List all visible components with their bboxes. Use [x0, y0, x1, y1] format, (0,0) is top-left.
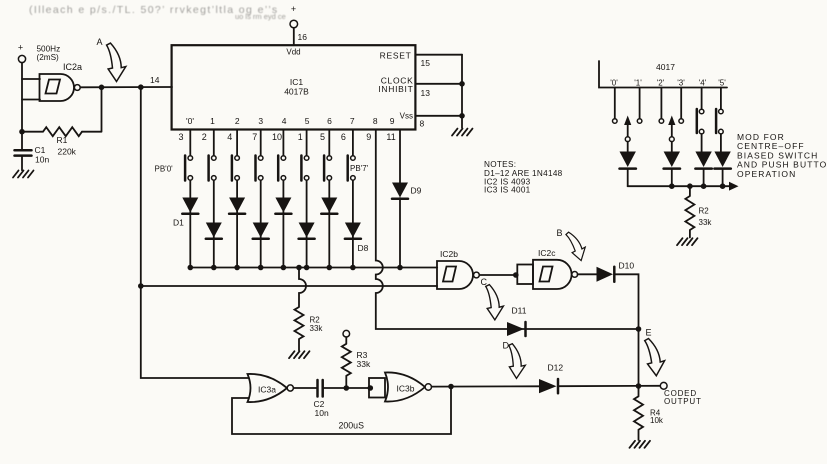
- mod switch '5': [716, 88, 723, 152]
- svg-text:OUTPUT: OUTPUT: [664, 397, 702, 406]
- node D arrow: [503, 341, 528, 380]
- svg-text:5: 5: [320, 132, 325, 142]
- wire IC2a inputs: [22, 79, 40, 100]
- svg-text:4: 4: [282, 116, 287, 126]
- svg-text:'4': '4': [699, 79, 707, 88]
- diode mod 4: [714, 152, 730, 187]
- svg-text:(2mS): (2mS): [37, 53, 60, 62]
- MOD note text: [737, 132, 827, 179]
- mod contact '3': [679, 88, 684, 124]
- svg-text:10: 10: [272, 132, 282, 142]
- diode mod 2: [664, 152, 680, 187]
- ground R2 mod: [677, 238, 698, 245]
- svg-text:1: 1: [298, 132, 303, 142]
- svg-text:4017B: 4017B: [284, 87, 309, 97]
- resistor R4: [634, 386, 664, 440]
- svg-text:E: E: [646, 328, 652, 338]
- pin number labels row: [178, 132, 395, 142]
- node feedback junction: [99, 85, 105, 91]
- diode D5: [275, 198, 291, 214]
- svg-text:8: 8: [373, 116, 378, 126]
- mod switch '4': [697, 88, 704, 152]
- svg-text:IC2a: IC2a: [63, 62, 82, 72]
- node B arrow: [557, 228, 588, 263]
- svg-text:33k: 33k: [699, 218, 713, 227]
- svg-text:7: 7: [252, 132, 257, 142]
- wire rail A down: [141, 87, 249, 378]
- svg-text:PB'0': PB'0': [155, 165, 174, 174]
- pushbutton PB'0' column pin3: [155, 130, 193, 268]
- diode D10: [597, 261, 635, 282]
- wire IC2a output to pin 14: [80, 86, 172, 88]
- svg-text:Vss: Vss: [400, 112, 413, 121]
- wire IC2b out: [479, 274, 517, 276]
- ground IC1 pins: [452, 129, 473, 136]
- diode D12: [539, 363, 563, 394]
- svg-text:4: 4: [227, 132, 232, 142]
- svg-text:D: D: [503, 341, 510, 351]
- mod wiper arrow 0/1: [624, 116, 631, 152]
- svg-text:IC3a: IC3a: [258, 385, 276, 395]
- svg-text:D1: D1: [173, 218, 184, 228]
- wire feedback loop 200uS: [232, 387, 451, 435]
- svg-text:IC2b: IC2b: [440, 249, 458, 259]
- svg-text:1: 1: [210, 116, 215, 126]
- ground R4: [630, 441, 651, 448]
- svg-text:R1: R1: [57, 135, 68, 145]
- svg-text:PB'7': PB'7': [350, 164, 369, 173]
- ground C1: [13, 171, 34, 178]
- tied input box IC3b: [369, 378, 385, 398]
- svg-text:16: 16: [298, 32, 308, 42]
- diode D1: [173, 198, 198, 228]
- svg-text:14: 14: [150, 75, 160, 85]
- svg-text:2: 2: [235, 116, 240, 126]
- label 500Hz (2mS): [37, 45, 61, 63]
- diode D4: [253, 223, 269, 239]
- svg-text:IC3 IS 4001: IC3 IS 4001: [484, 186, 531, 195]
- wire reset/inhibit/vss to ground: [461, 55, 463, 128]
- pushbutton column 3 pin4: [232, 130, 240, 268]
- wire mod bus with arrow: [628, 182, 739, 191]
- wire D10 to E rail: [614, 274, 638, 386]
- svg-text:'1': '1': [634, 79, 642, 88]
- nor gate IC3b: [385, 372, 431, 401]
- wire IC3a out: [293, 387, 317, 389]
- svg-text:C1: C1: [35, 145, 46, 155]
- svg-text:D10: D10: [619, 261, 635, 271]
- diode D7: [321, 198, 337, 214]
- capacitor C1: [15, 132, 50, 171]
- wire input rail: [21, 63, 23, 132]
- resistor R2 with hop: [295, 268, 324, 351]
- node feedback junction: [448, 384, 454, 390]
- pushbutton column 7 pin5: [324, 130, 332, 268]
- svg-text:3: 3: [178, 132, 183, 142]
- 4017 header line: [599, 61, 727, 88]
- pushbutton column 2 pin2: [209, 130, 217, 268]
- pushbutton column 4 pin7: [256, 130, 264, 268]
- svg-text:11: 11: [386, 132, 395, 142]
- svg-text:6: 6: [327, 116, 332, 126]
- svg-text:5: 5: [305, 116, 310, 126]
- wire diode bus: [190, 267, 437, 269]
- svg-text:RESET: RESET: [380, 51, 412, 61]
- mod output labels: [610, 79, 726, 88]
- diode D3: [229, 198, 245, 214]
- IC IC1 4017B body: [150, 45, 415, 129]
- svg-text:6: 6: [341, 132, 346, 142]
- pushbutton PB'7' column pin6: [348, 130, 369, 268]
- svg-text:'3': '3': [677, 79, 685, 88]
- svg-text:+: +: [291, 4, 296, 14]
- node A arrow: [97, 37, 127, 82]
- output index labels row: [186, 116, 395, 126]
- pin 15 RESET stub: [415, 54, 462, 56]
- svg-text:Vdd: Vdd: [286, 48, 300, 57]
- svg-text:33k: 33k: [357, 359, 371, 369]
- svg-text:15: 15: [421, 58, 431, 68]
- svg-text:4017: 4017: [656, 62, 675, 72]
- svg-text:OPERATION: OPERATION: [737, 169, 796, 179]
- svg-text:IC1: IC1: [290, 77, 304, 87]
- svg-text:uo ls rm eyd ce: uo ls rm eyd ce: [235, 12, 286, 21]
- wire clock line to IC2b: [141, 285, 437, 287]
- node E junction D11: [636, 326, 642, 332]
- pushbutton column 6 pin1: [301, 130, 309, 268]
- wire IC2c out: [578, 273, 597, 275]
- svg-text:10k: 10k: [650, 416, 664, 425]
- nand gate IC2b: [437, 249, 479, 289]
- svg-text:200uS: 200uS: [339, 421, 365, 431]
- svg-text:3: 3: [258, 116, 263, 126]
- NOTES text: [484, 160, 563, 195]
- svg-text:'0': '0': [186, 116, 194, 126]
- svg-text:R2: R2: [699, 207, 710, 216]
- resistor R1: [22, 127, 82, 156]
- capacitor C2: [314, 380, 329, 418]
- diode D9 column pin11: [392, 130, 422, 268]
- diode D11: [507, 306, 527, 337]
- svg-text:D11: D11: [512, 306, 527, 316]
- diode D6: [299, 223, 315, 239]
- svg-text:'0': '0': [610, 79, 618, 88]
- pin 8 Vss stub: [415, 115, 462, 117]
- diode D8: [345, 223, 369, 254]
- wire IC3b output line: [432, 385, 661, 388]
- resistor R3: [342, 330, 371, 388]
- node R3 junction: [344, 385, 350, 391]
- svg-text:A: A: [97, 37, 103, 47]
- svg-text:+: +: [18, 43, 23, 53]
- nand gate IC2a (schmitt): [40, 62, 83, 101]
- diode mod 1: [620, 152, 636, 187]
- node R1/C1 junction: [19, 129, 25, 135]
- svg-text:D9: D9: [411, 186, 422, 196]
- node output junction: [636, 383, 642, 389]
- resistor R2 mod: [685, 186, 712, 237]
- svg-text:'5': '5': [718, 79, 726, 88]
- svg-text:220k: 220k: [58, 147, 77, 157]
- node E arrow: [645, 328, 665, 376]
- tied input box IC2c: [517, 265, 533, 285]
- svg-text:INHIBIT: INHIBIT: [378, 84, 413, 94]
- svg-text:IC3b: IC3b: [397, 384, 415, 394]
- svg-text:9: 9: [366, 132, 371, 142]
- svg-text:7: 7: [350, 116, 355, 126]
- node bus junctions: [188, 265, 403, 271]
- wire pin9 column with hops: [376, 130, 639, 330]
- wire C2 to IC3b: [323, 387, 369, 389]
- pin 13 CLOCK INHIBIT stub: [415, 83, 462, 85]
- svg-text:D12: D12: [548, 363, 564, 373]
- svg-text:10n: 10n: [315, 408, 329, 418]
- svg-text:B: B: [557, 228, 563, 238]
- mod contact '0': [613, 88, 618, 124]
- nor gate IC3a: [248, 374, 294, 402]
- mod wiper arrow 2/3: [668, 116, 675, 152]
- pin 16 Vdd terminal: [290, 4, 307, 45]
- svg-text:33k: 33k: [310, 324, 324, 333]
- diode mod 3: [695, 152, 711, 187]
- svg-text:NOTES:: NOTES:: [484, 160, 516, 169]
- svg-text:IC2c: IC2c: [538, 248, 556, 258]
- diode D2: [206, 223, 222, 239]
- node A rail junction: [138, 84, 144, 90]
- svg-text:8: 8: [420, 119, 425, 129]
- ground R2: [289, 351, 310, 358]
- mod contact '1': [637, 88, 642, 124]
- mod contact '2': [659, 88, 664, 124]
- wire feedback vertical: [82, 87, 102, 131]
- svg-text:9: 9: [390, 116, 395, 126]
- coded output terminal: [660, 382, 701, 406]
- node C arrow: [481, 277, 505, 320]
- svg-text:R2: R2: [310, 316, 321, 325]
- svg-text:10n: 10n: [35, 155, 49, 165]
- pushbutton column 5 pin10: [278, 130, 286, 268]
- svg-text:'2': '2': [657, 79, 665, 88]
- svg-text:D8: D8: [358, 243, 369, 253]
- svg-text:13: 13: [421, 88, 431, 98]
- svg-text:C: C: [481, 277, 488, 287]
- svg-text:2: 2: [202, 132, 207, 142]
- ghost header text: [29, 4, 286, 21]
- node rail to IC2b branch: [138, 283, 144, 289]
- nand gate IC2c: [533, 248, 578, 289]
- oscillator input terminal: [18, 43, 26, 63]
